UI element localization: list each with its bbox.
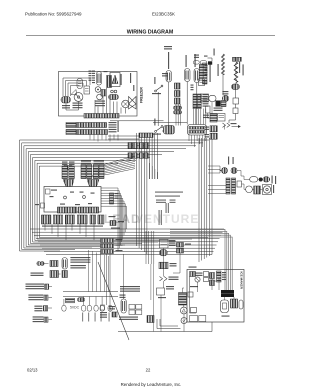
bl flat capsule [77,298,84,302]
svg-text:ICE MAKER: ICE MAKER [240,272,244,290]
bl junction dark cluster [66,298,75,303]
freezer lamp bulb [97,72,102,86]
junction blob pair [216,101,221,107]
freezer compartment outline [59,72,138,117]
inline connector C [64,166,72,170]
im fill switch [190,272,196,277]
board right edge connector [110,193,114,204]
connector stack of three [175,83,181,89]
inline connector pair A2 [139,143,143,149]
im left wiring [190,277,197,314]
svg-text:WIRING DIAGRAM: WIRING DIAGRAM [127,30,174,36]
wire arrow junction [223,123,230,127]
lamp labels [95,101,105,102]
ff lamp capsule [166,71,172,83]
im hatch a [210,273,215,279]
im heater label [190,286,198,287]
evap fan label right [130,73,131,83]
freezer harness connector row 2 [77,130,108,135]
left harness bus wires [20,140,210,251]
column A lead [186,82,188,125]
im hatch a2 [210,280,215,286]
switch link wire [157,92,159,126]
im internal wires [197,282,199,292]
auger labels [273,185,274,193]
bm vertical links [106,254,108,305]
bm labels right [166,286,174,287]
ice maker feed wires [170,230,225,291]
evap harness strip [199,65,203,79]
auger motor connector a [222,168,228,174]
relay row below board [42,215,51,224]
bm bottom connector [147,316,154,323]
bm mid cluster bottom labels [119,317,138,318]
defrost capsule tag B [200,61,207,64]
board connector stack A [62,166,68,179]
mid right link wires [208,166,222,171]
defrost capsule tag A [193,61,199,64]
bm right connector pair [177,243,184,248]
fan blade symbol [129,97,137,110]
harness fan into board stacks [104,156,135,165]
defrost limit box [233,98,239,104]
drain heater box 2 [218,114,226,122]
water valve coil [254,186,261,194]
bottom rail elbow pair [157,319,181,329]
center bundle top connector [139,133,153,138]
row2 hatch pair [50,271,58,278]
board connector stack B [81,165,86,179]
thermistor label [162,73,168,74]
bm vertical label column [159,210,160,225]
row stub wires [45,263,49,265]
bm labels near im box [189,267,197,268]
defrost heater coil 2 [234,62,238,83]
door connector labels [203,94,209,95]
heater 2 labels [239,62,240,73]
freezer main connector J2 [188,125,207,136]
im bottom labels [190,316,198,322]
evaporator fan box [110,73,120,87]
dispenser labels [228,157,229,165]
defrost drain diagonal wire [98,262,129,340]
thermostat capsule A [209,95,216,101]
row5 sensor [43,306,47,311]
evap fan label right 2 [133,85,134,91]
dispenser inline dark oval [259,178,263,182]
defrost thermostat small box [101,90,106,97]
board right fan-out wires [101,188,118,251]
fresh food door switch 2 [156,127,162,131]
bottom rail wire [118,331,212,333]
column B label [195,54,196,67]
row5 label [34,306,42,307]
bl capsule left [62,305,66,311]
board left edge component [41,203,45,208]
bl capsule labels [82,313,83,322]
right vertical wire bundle [198,138,200,262]
evap harness box [199,79,205,86]
im motor cam circle [195,277,200,282]
svg-text:EI23BC35K: EI23BC35K [152,12,175,17]
capsule pair below stack [174,106,182,110]
evap thermistor strip [107,76,112,88]
bl capsule row right [108,305,112,311]
auger motor M2 [263,186,270,193]
bl capsule row [82,305,86,311]
ff sensor hatch pair r1 [50,261,58,267]
im heater box [231,299,238,308]
auger motor connector b [231,168,237,174]
defrost limit box 2 [233,108,238,114]
bm box 3 [157,288,165,295]
terminal block [201,94,209,102]
ice maker box outline [187,270,244,323]
dispenser switch capsule 2 [263,177,270,182]
bm connector block rows [101,239,114,243]
fan connector capsule [109,95,119,100]
freezer main connector J1 [164,126,175,135]
defrost heater coil 1 [222,54,225,75]
row2 box [62,271,67,278]
board connector stack B labels [81,161,91,162]
top-middle link wires [153,122,187,124]
freezer harness connector blob 1 [66,123,76,128]
inline connector pair B1 [128,153,132,159]
bm box pair A [129,305,135,310]
bm mid capsule [121,299,126,313]
door connector hatch stack [193,94,197,109]
mid marks between columns [191,85,194,86]
below-connector lead wires [89,135,91,140]
bm wire arrow [160,277,168,281]
column A lamp capsule [185,69,191,82]
row4 label [28,295,43,296]
svg-text:Rendered by LeadVenture, Inc.: Rendered by LeadVenture, Inc. [121,382,182,387]
im small sq [204,272,209,277]
top right link wires [208,58,213,61]
svg-text:VENTURE: VENTURE [135,212,199,226]
main control board outline [44,187,101,213]
water valve capsule [246,186,253,193]
column A label [186,55,187,67]
svg-text:Publication No: 5995627949: Publication No: 5995627949 [25,12,82,17]
freezer light switch [95,87,101,93]
compressor PTC start device [71,90,77,96]
freezer in-box terminal bar [84,114,119,119]
im connector black [221,290,234,297]
column B lamp capsule [194,69,200,83]
inline connector pair A1 [128,143,132,149]
board connector stack A labels [62,162,68,163]
relay row labels [42,226,103,227]
center vertical wire bundle [136,133,138,246]
ff labels block [70,257,90,258]
drain heater dark block [210,114,217,123]
svg-text:FREEZER: FREEZER [140,87,144,103]
diagram note text [155,192,183,193]
board internal marks [50,196,54,197]
bm top vertical labels 2 [166,203,167,213]
bl capsule feed stubs [83,297,85,306]
thermostat capsule B [222,95,228,101]
stack A funnel [63,180,74,187]
row3 label [26,284,45,285]
arrow exit wire [232,126,239,128]
coil1 label [218,64,219,76]
door chime circle [181,318,187,324]
compressor motor M1 [74,93,83,102]
title underline rule [26,34,275,36]
dispenser connector strip 2 [232,178,236,194]
heater 2 connectors [233,57,237,61]
below cluster box 2 [210,133,217,139]
relay output stubs [44,224,46,231]
ff thermistor circle pair [37,262,41,266]
auger motor box [263,185,272,195]
freezer labels column [89,71,92,72]
ff lamp lead [168,82,170,126]
bm mid cluster labels [120,286,140,287]
defrost labels top [194,55,199,56]
thermal fuse box [206,106,211,113]
im hatch b [217,271,222,282]
im small sq 2 [204,278,209,282]
row6 label [33,316,44,317]
compressor start relay [84,86,90,94]
defrost thermostat capsule [232,84,240,90]
stack B funnel [87,180,99,187]
connector side labels [109,122,117,123]
im motor capsule [221,300,229,313]
right strip label [210,64,211,82]
center bundle right bends [149,163,151,179]
dispenser connector strip 1 [226,178,230,194]
compressor run capacitor [61,97,71,104]
board lower-right cluster [109,216,116,217]
below cluster box 1 [210,126,217,132]
fresh food door switch 1 label [154,77,155,84]
connector bar bottom leads [188,135,190,141]
compressor label [73,103,83,104]
svg-text:22: 22 [146,368,151,373]
fan box right label [121,74,122,85]
bl wire pair [63,291,118,293]
bm hatch box 2 [159,262,168,269]
column B lead [196,83,198,125]
board bottom connector C1 [58,207,77,213]
board bottom connector C2 [78,207,99,213]
dispenser switch capsule 1 [250,177,258,182]
evaporator fan motor [122,100,130,108]
row2 label [31,273,44,274]
fan box left label [104,71,108,72]
bottom distribution wires [30,228,224,230]
row3 sensor [45,284,49,289]
bm left col [101,305,105,310]
fresh food door switch 1 [156,87,162,91]
svg-text:5VDC: 5VDC [70,305,80,309]
row4 sensor [44,295,48,300]
ff lamp label strip [168,52,169,69]
bm capsule below [160,250,168,256]
im small capsule [239,300,243,309]
bm box pair B [136,305,142,310]
inline connector pair B2 [139,153,143,159]
defrost junction blob [208,61,212,64]
right tall harness strip [203,63,208,84]
freezer labels column 2 [92,71,95,72]
alarm buzzer [180,307,187,314]
board internal comp a [46,189,51,194]
top labels near lamp [164,46,172,47]
freezer light switch lower [97,94,103,100]
dispenser switch labels [272,176,273,184]
door harness ribbon wires [192,109,194,125]
freezer harness connector row 1 [77,123,107,128]
svg-text:02/13: 02/13 [27,368,38,373]
bm dark strip [179,293,187,306]
freezer internal harness loops [63,78,90,96]
ff evap capsule [62,258,67,269]
defrost label small [204,56,208,57]
compressor overload protector [77,79,83,89]
row6 sensor [44,317,48,322]
fresh food door switch 2 label [154,119,155,126]
bl harness verticals [88,250,90,292]
top right small labels [214,49,215,56]
bm relay box top [160,240,169,249]
bm wires [145,231,147,264]
freezer harness connector blob 2 [66,130,76,135]
dispenser aux box [237,181,242,187]
